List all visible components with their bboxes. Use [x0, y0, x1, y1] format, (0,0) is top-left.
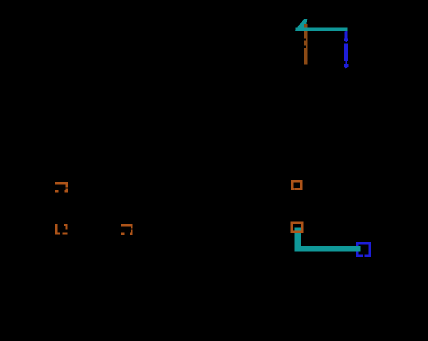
pin node box E (orange, over top of teal wire) [291, 222, 304, 234]
blue net wire with inline pin marks and arrowhead (vertical, top right) [344, 29, 349, 69]
pin node box B (orange, lower left) [55, 224, 68, 235]
pin node box A (orange, upper left) [55, 182, 68, 193]
teal highlighted net wire (L-shape to blue pad) [294, 227, 360, 251]
brown net wire (vertical, node at top right) [304, 24, 308, 64]
blue pad box (bottom right) [356, 242, 371, 257]
teal net wire (top horizontal segment) [295, 27, 347, 30]
pin node box C (orange, lower middle-left) [121, 224, 133, 235]
pin node box D (orange, upper right) [291, 180, 303, 190]
teal net-flag arrow (left end of top wire) [295, 19, 308, 30]
